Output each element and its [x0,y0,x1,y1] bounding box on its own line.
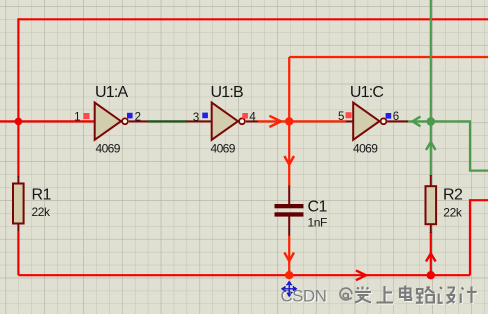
inverter U1:C [346,103,408,140]
svg-text:5: 5 [338,111,344,123]
wire: R2 bottom to bottom rail [430,232,432,275]
inverter U1:A [95,103,148,140]
wire: bottom horizontal rail [18,274,470,276]
arrow up green above R2 [426,142,436,150]
svg-text:4069: 4069 [96,142,121,156]
arrow left green on C output [413,117,421,127]
wire: C1 bottom to bottom rail [288,235,290,275]
wire: U1:B output net to U1:C input [258,120,346,122]
svg-text:3: 3 [193,112,199,124]
svg-text:2: 2 [135,111,141,123]
svg-text:U1:B: U1:B [211,84,243,101]
svg-text:4069: 4069 [353,142,378,156]
svg-text:6: 6 [393,111,399,123]
svg-text:R2: R2 [443,187,463,204]
junction dot bottom C1 [285,271,293,279]
svg-text:U1:C: U1:C [350,84,383,101]
svg-text:U1:A: U1:A [95,84,128,101]
pin1 state square (red) [84,113,90,119]
watermark @ glyph [340,288,352,300]
svg-text:C1: C1 [308,199,328,216]
inverter U1:B [187,103,259,140]
arrow down above C1 [284,156,294,165]
resistor R2 [426,175,437,233]
arrow right on bottom rail [356,270,366,280]
pin4 state square (red) [242,113,248,119]
junction dot green node [427,117,436,126]
arrow up on R2 bottom wire [426,254,436,262]
wire: mid vertical from y57 rail to C1 [288,57,290,186]
arrow down below C1 [284,253,294,262]
pin3 state square (blue) [202,113,208,119]
watermark blue origin marker [282,282,297,297]
svg-text:R1: R1 [32,186,52,203]
svg-text:22k: 22k [32,205,52,219]
junction dot left [15,118,23,126]
watermark [281,282,478,307]
junction dot bottom R2 [427,271,435,279]
svg-text:4: 4 [249,111,256,123]
svg-text:22k: 22k [443,205,463,219]
wire: R1 bottom to bottom rail [17,231,19,276]
junction dot B-out node [285,117,293,125]
svg-text:1: 1 [74,111,80,123]
pin2 state square (blue) [127,113,133,119]
capacitor C1 [275,186,304,236]
watermark chinese characters (drawn strokes) [356,287,478,305]
resistor R1 [13,176,24,231]
wire: top horizontal rail [18,18,488,20]
wire: left input horizontal to U1:A pin 1 [0,120,94,122]
svg-text:4069: 4069 [211,142,236,156]
pin5 state square (red) [346,112,352,118]
arrow right on B output wire [269,116,281,127]
wire: U1:C output net (green) [408,121,488,170]
wire: green vertical rail to R2 top [430,0,432,176]
svg-text:1nF: 1nF [308,216,328,230]
wire: U1:A output to U1:B input (dark green) [148,120,188,122]
wire: left vertical rail through R1 [17,18,19,177]
wire: second top rail y=57 [289,56,488,58]
wire: right red vertical from bottom rail [470,200,488,275]
pin6 state square (blue) [386,113,392,119]
